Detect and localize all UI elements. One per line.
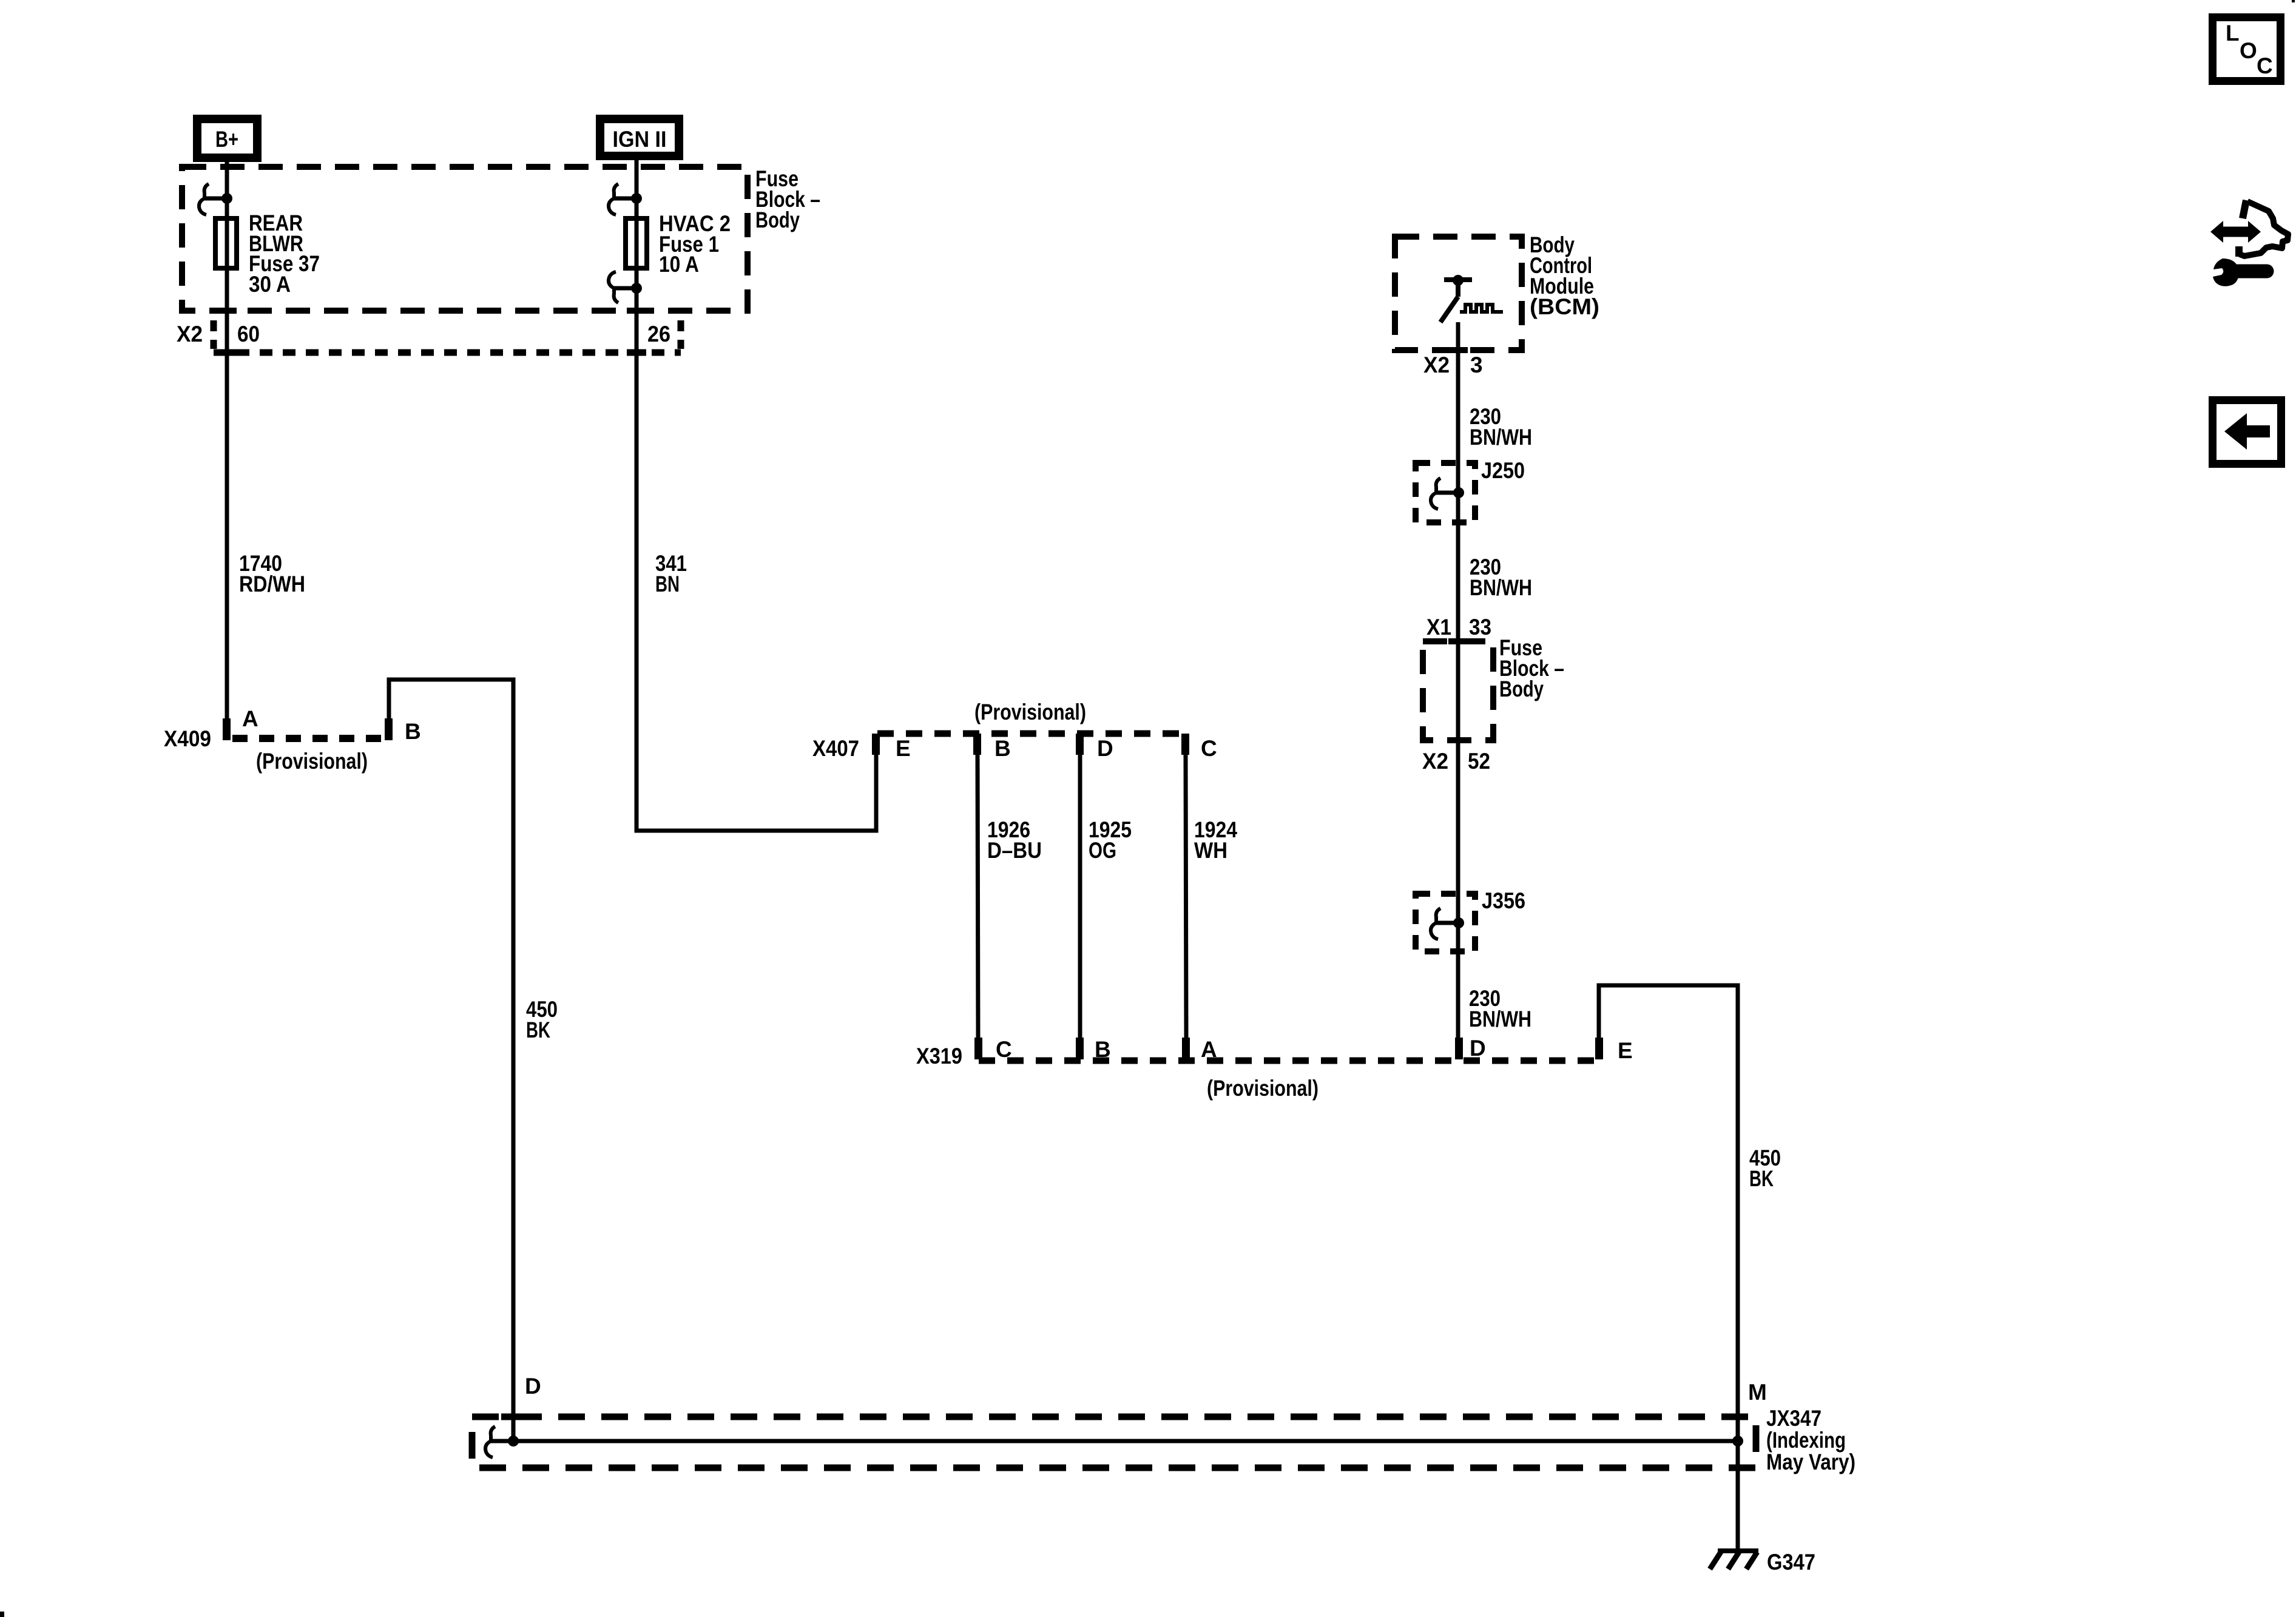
svg-text:O: O [2240, 38, 2257, 63]
svg-text:60: 60 [237, 322, 260, 346]
connector X2 strip of fuse block [177, 320, 681, 353]
svg-text:BN/WH: BN/WH [1470, 425, 1532, 450]
fuse block body box (top) [182, 167, 748, 311]
svg-text:BN: BN [655, 572, 680, 596]
tick BCM box bottom [1448, 347, 1468, 353]
wire X407 C to X319 A [1186, 755, 1186, 1038]
label wire 230 BN/WH (1) [1470, 404, 1532, 450]
icon LOC box [2213, 18, 2281, 81]
BCM driver symbol [1440, 275, 1503, 322]
svg-text:10 A: 10 A [659, 252, 699, 277]
svg-text:B: B [994, 736, 1011, 761]
connector X319 pin B [1076, 1038, 1084, 1059]
svg-text:X2: X2 [177, 322, 203, 346]
svg-text:B: B [1095, 1037, 1111, 1062]
svg-text:C: C [1201, 736, 1217, 761]
label wire 1926 D-BU [987, 817, 1042, 863]
wire IGN II to X407 E [636, 160, 876, 831]
clip below fuse 1 [609, 272, 642, 303]
splice J250 [1416, 458, 1525, 522]
junction JX347 box [472, 1417, 1756, 1468]
ground bus wire [513, 1439, 1738, 1443]
connector X407 pin E [872, 734, 880, 755]
label fuse block pin X2 52 [1422, 749, 1490, 774]
wire X407 B to X319 C [977, 755, 978, 1038]
svg-text:BK: BK [1749, 1166, 1774, 1191]
page mark top right [2292, 0, 2295, 2]
svg-text:JX347: JX347 [1766, 1406, 1822, 1431]
page mark bottom left [0, 1612, 4, 1617]
tick fuse box bottom at IGN wire [627, 308, 646, 314]
clip at JX347 [485, 1426, 513, 1457]
terminal B+ [197, 119, 257, 158]
fuse F37 [215, 218, 237, 268]
svg-text:X2: X2 [1423, 353, 1450, 377]
svg-text:D: D [1097, 736, 1113, 761]
connector X409 dashed line [232, 735, 385, 742]
svg-text:X1: X1 [1427, 615, 1451, 640]
clip at fuse 37 [199, 184, 232, 215]
svg-text:G347: G347 [1767, 1550, 1815, 1575]
icon connector repair [2210, 200, 2288, 286]
svg-text:BN/WH: BN/WH [1469, 1007, 1531, 1031]
svg-text:X2: X2 [1422, 749, 1448, 774]
clip above fuse 1 [609, 184, 642, 215]
junction dot right [1732, 1436, 1743, 1447]
wire BCM to X319 D (230 BN/WH) [1456, 322, 1460, 1038]
terminal IGN II [600, 119, 679, 156]
connector X409 pin A [223, 718, 231, 740]
svg-text:(Provisional): (Provisional) [1207, 1076, 1319, 1101]
label JX347 [1766, 1406, 1855, 1474]
svg-text:A: A [1201, 1037, 1217, 1062]
tick fuse box bottom at B+ wire [217, 308, 237, 314]
label wire 341 BN [655, 551, 687, 596]
svg-text:OG: OG [1089, 838, 1116, 863]
connector X407 pin B [973, 734, 981, 755]
svg-text:Body: Body [755, 208, 800, 232]
svg-text:A: A [242, 706, 258, 731]
connector X409 pin B [385, 718, 393, 740]
svg-text:May Vary): May Vary) [1766, 1450, 1855, 1474]
label fuse 1 [659, 211, 731, 277]
svg-text:X409: X409 [164, 726, 211, 751]
wire B+ to X409 A [225, 162, 229, 718]
connector X319 pin D [1455, 1038, 1463, 1059]
splice J356 [1416, 888, 1525, 951]
ground G347 [1710, 1550, 1815, 1575]
wire X319 E to ground bus (450 BK right) [1599, 985, 1738, 1548]
label wire 450 BK (right) [1749, 1146, 1781, 1191]
connector X409 [164, 706, 421, 774]
label wire 230 BN/WH (2) [1470, 555, 1532, 600]
svg-text:(Indexing: (Indexing [1766, 1428, 1846, 1453]
label wire 230 BN/WH (3) [1469, 986, 1531, 1031]
svg-text:D: D [1470, 1036, 1486, 1061]
svg-text:33: 33 [1469, 615, 1491, 640]
icon back arrow box [2213, 400, 2281, 464]
wire X409 B to ground bus (450 BK) [389, 680, 513, 1441]
svg-text:C: C [2257, 53, 2273, 78]
label wire 1924 WH [1194, 817, 1237, 863]
label fuse 37 [249, 211, 320, 297]
svg-text:(Provisional): (Provisional) [256, 749, 368, 774]
label fuse block body (right) [1499, 635, 1564, 701]
svg-text:IGN II: IGN II [613, 127, 667, 152]
svg-text:52: 52 [1468, 749, 1490, 774]
svg-text:(Provisional): (Provisional) [974, 700, 1086, 724]
svg-text:(BCM): (BCM) [1530, 294, 1599, 319]
svg-text:X407: X407 [812, 736, 859, 761]
svg-text:Body: Body [1499, 677, 1544, 701]
wire X407 D to X319 B [1078, 755, 1082, 1038]
fuse F1 [626, 218, 647, 268]
svg-text:BN/WH: BN/WH [1470, 575, 1532, 600]
svg-text:RD/WH: RD/WH [239, 572, 305, 596]
label fuse block body (top) [755, 166, 820, 232]
label wire 1740 RD/WH [239, 551, 305, 596]
svg-text:J356: J356 [1482, 888, 1525, 913]
connector X319 [916, 1036, 1633, 1101]
svg-text:B+: B+ [215, 127, 238, 152]
svg-text:B: B [405, 719, 421, 744]
label wire 450 BK (left) [526, 997, 558, 1042]
svg-text:26: 26 [647, 322, 670, 346]
label BCM pin X2 3 [1423, 353, 1483, 377]
tick fuse block right bottom [1448, 737, 1468, 743]
label BCM [1530, 232, 1599, 319]
svg-text:WH: WH [1194, 838, 1227, 863]
fuse block body box (right) [1423, 641, 1493, 740]
svg-text:C: C [996, 1037, 1012, 1062]
svg-text:BK: BK [526, 1018, 550, 1042]
svg-text:E: E [1618, 1038, 1633, 1063]
connector X319 pin C [974, 1038, 982, 1059]
connector X407 pin D [1076, 734, 1084, 755]
junction dot left [508, 1436, 519, 1447]
body control module box [1395, 237, 1522, 350]
connector X319 pin A [1182, 1038, 1190, 1059]
svg-text:J250: J250 [1481, 458, 1525, 483]
svg-text:3: 3 [1470, 353, 1483, 377]
svg-text:E: E [896, 736, 911, 761]
connector X407 pin C [1181, 734, 1189, 755]
svg-text:D: D [525, 1374, 541, 1399]
svg-text:X319: X319 [916, 1044, 962, 1068]
connector X319 pin E [1595, 1038, 1603, 1059]
svg-text:30 A: 30 A [249, 272, 291, 297]
svg-text:D–BU: D–BU [987, 838, 1042, 863]
tick fuse block right top [1448, 638, 1468, 644]
label wire 1925 OG [1089, 817, 1132, 863]
svg-text:M: M [1748, 1380, 1767, 1405]
connector X319 dashed line [979, 1058, 1603, 1064]
tick JX347 top at left wire [501, 1414, 523, 1420]
label fuse block pin X1 33 [1427, 615, 1491, 640]
connector X407 [812, 700, 1217, 761]
svg-text:L: L [2226, 21, 2240, 46]
